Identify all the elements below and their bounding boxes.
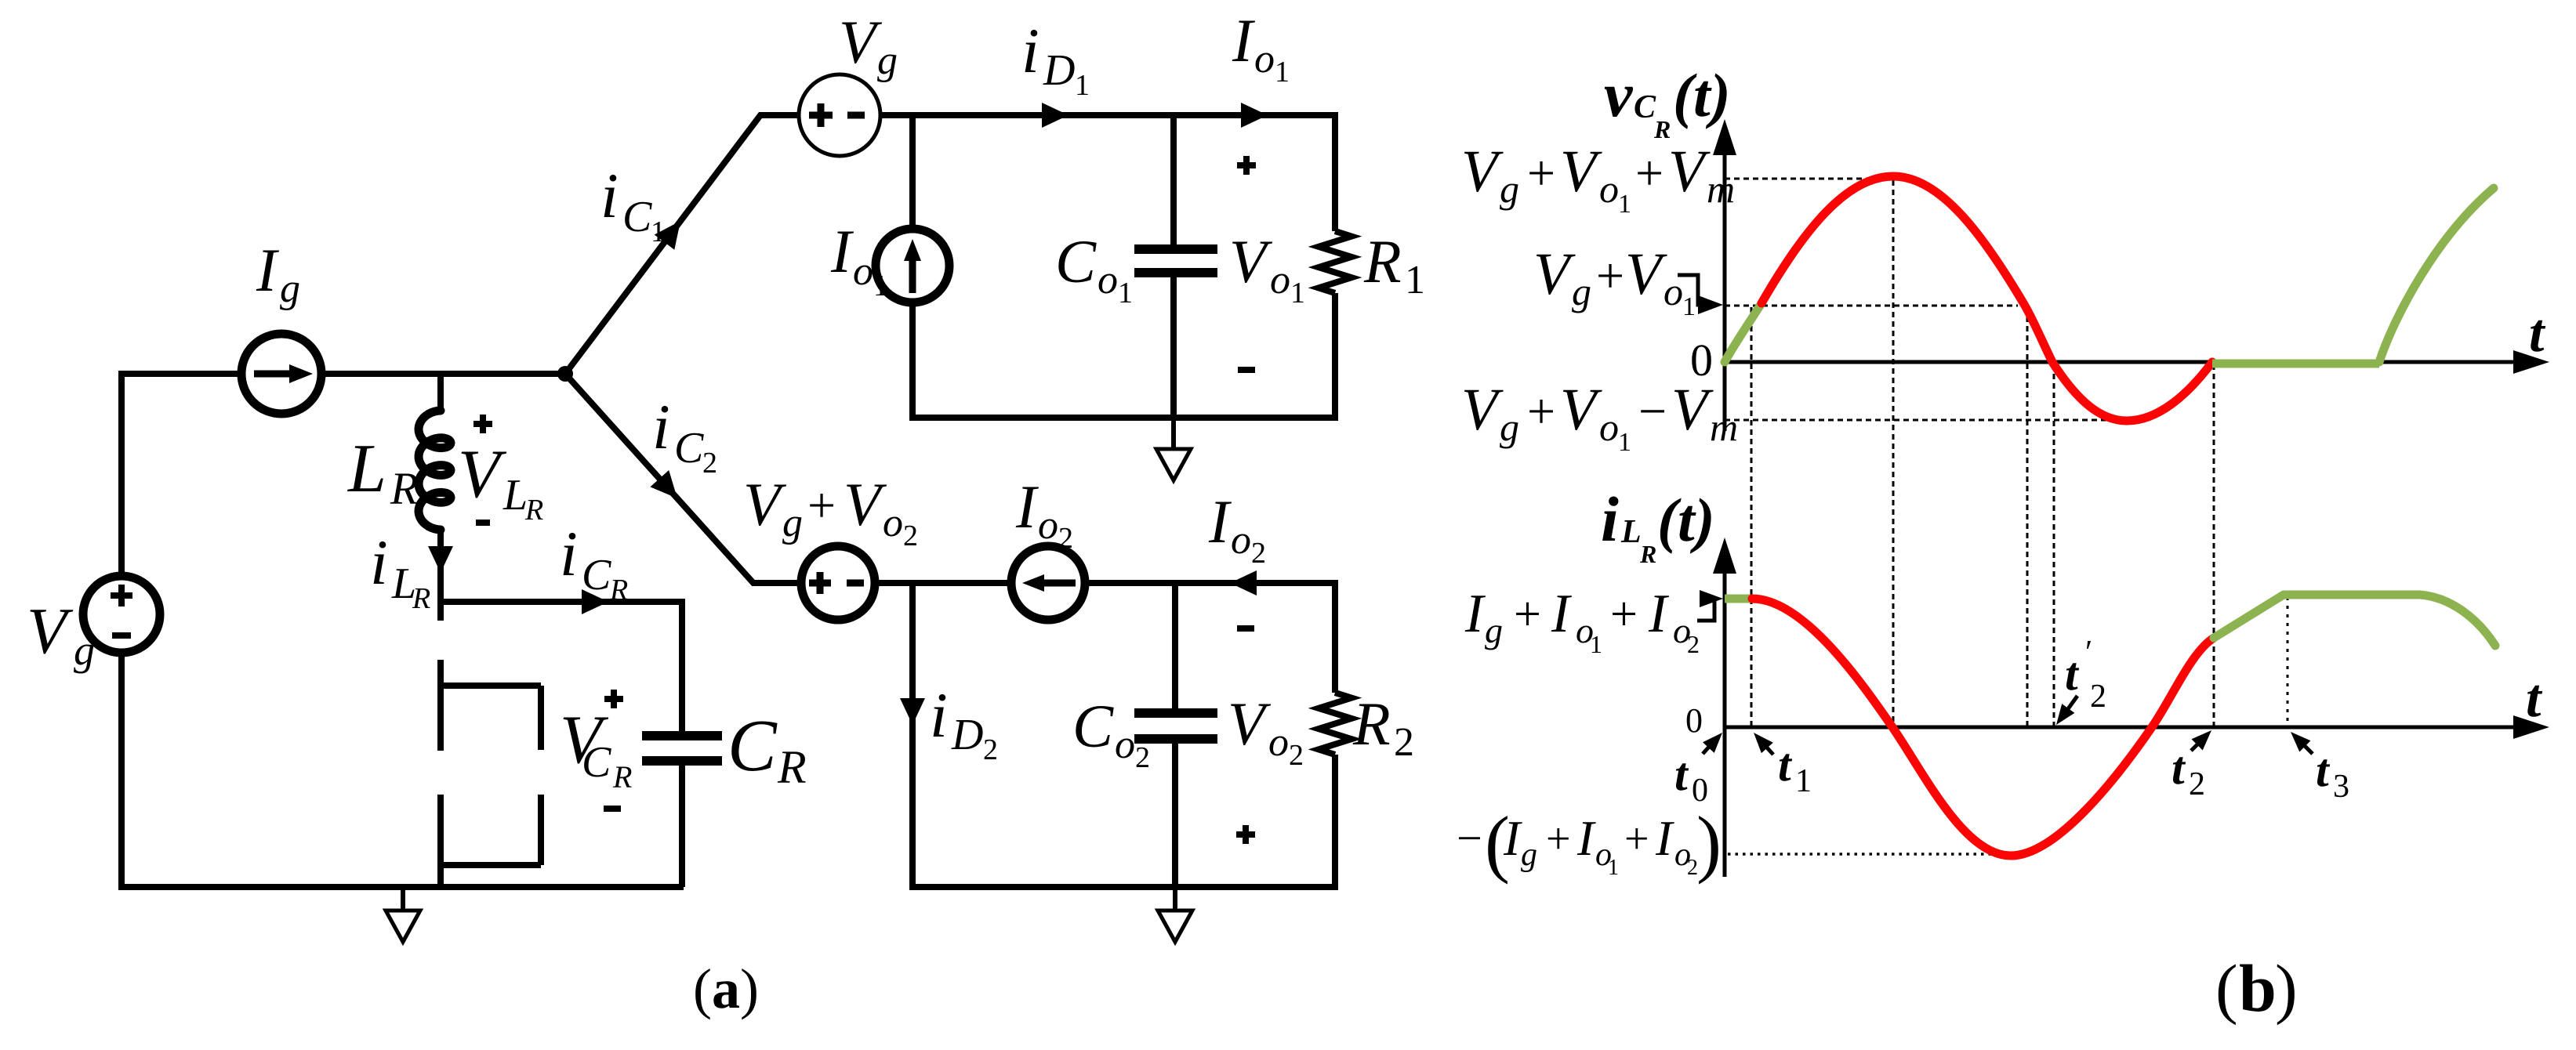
svg-text:V: V [1461, 139, 1504, 205]
svg-text:i: i [1601, 483, 1619, 555]
svg-text:+: + [1624, 815, 1649, 864]
svg-text:t: t [2529, 303, 2546, 364]
svg-text:V: V [1229, 227, 1273, 295]
svg-text:m: m [1707, 167, 1735, 211]
svg-text:g: g [782, 501, 803, 545]
curve iLR green flat [2284, 591, 2420, 599]
plus of Vo1 [1237, 156, 1256, 175]
wire Co2 bottom [1172, 739, 1178, 887]
svg-text:t: t [1674, 748, 1689, 800]
svg-text:V: V [1625, 241, 1667, 307]
axis vCR vertical [1723, 145, 1727, 431]
svg-text:+: + [1546, 815, 1571, 864]
svg-text:1: 1 [1590, 630, 1602, 658]
svg-text:1: 1 [1618, 428, 1631, 457]
svg-text:R: R [1352, 690, 1391, 758]
svg-text:2: 2 [1289, 739, 1304, 772]
current source Io1 [876, 229, 949, 302]
wire Io1 to rail [909, 302, 916, 421]
wire to Io1 source [909, 112, 916, 229]
wire left vertical upper [118, 371, 125, 577]
svg-text:o: o [1599, 167, 1619, 211]
arrow t2 [2191, 737, 2205, 751]
svg-text:R: R [1639, 540, 1656, 568]
svg-text:I: I [1015, 472, 1039, 541]
svg-text:g: g [877, 38, 898, 83]
svg-text:0: 0 [1685, 701, 1703, 740]
svg-text:g: g [1485, 610, 1503, 650]
svg-text:o: o [1231, 518, 1251, 563]
arrow t1 [1759, 739, 1773, 755]
svg-text:3: 3 [2333, 769, 2349, 805]
svg-text:2: 2 [702, 447, 717, 480]
plus of Vo2 [1236, 825, 1255, 844]
svg-text:o: o [883, 501, 903, 545]
svg-text:V: V [1228, 690, 1272, 758]
svg-text:L: L [503, 471, 528, 520]
wire after Vg+Vo2 [875, 580, 1011, 586]
svg-text:t: t [2526, 668, 2543, 729]
curve vCR green clamp flat [2212, 360, 2379, 368]
guide dashed vertical VgVo1 crossing [2026, 307, 2029, 726]
svg-text:1: 1 [651, 215, 666, 248]
svg-text:1: 1 [1405, 258, 1425, 302]
plus of VCR [604, 690, 623, 708]
svg-text:C: C [582, 738, 611, 787]
svg-text:′: ′ [2085, 635, 2092, 671]
svg-text:v: v [1604, 59, 1634, 130]
svg-text:2: 2 [1135, 741, 1150, 774]
svg-text:i: i [370, 527, 388, 598]
minus of Vo1 [1238, 367, 1255, 373]
svg-text:o: o [1038, 503, 1058, 548]
wire Co1 top [1170, 112, 1177, 249]
svg-text:1: 1 [873, 270, 888, 302]
svg-text:V: V [844, 470, 887, 538]
wire inductor top stub [437, 371, 444, 411]
arrow iCR [582, 589, 608, 614]
switch (dashed) main segments [437, 602, 444, 887]
svg-text:I: I [1503, 810, 1522, 866]
svg-text:): ) [2275, 950, 2298, 1026]
svg-text:i: i [560, 518, 578, 589]
svg-text:R: R [612, 759, 632, 795]
curve iLR red resonant [1752, 599, 2214, 856]
curve vCR green rise [2379, 188, 2494, 362]
capacitor CR [642, 736, 722, 761]
wire bottom rail (output2) [909, 884, 1338, 890]
inductor LR coil [419, 411, 451, 530]
svg-text:1: 1 [1682, 292, 1696, 321]
svg-text:(t): (t) [1673, 61, 1731, 129]
svg-text:I: I [1576, 810, 1596, 866]
current source Ig [241, 334, 321, 414]
svg-text:R: R [524, 494, 543, 527]
svg-text:0: 0 [1692, 773, 1708, 809]
svg-text:I: I [1464, 584, 1486, 644]
curve iLR green initial flat [1725, 595, 1752, 603]
axis iLR horizontal t [1725, 726, 2520, 730]
resistor R1 [1332, 112, 1338, 231]
svg-text:I: I [256, 236, 280, 304]
svg-text:): ) [740, 958, 759, 1020]
svg-text:R: R [412, 582, 430, 615]
svg-text:−: − [1457, 813, 1482, 864]
guide dotted horizontal -(Ig+Io1+Io2) [1728, 853, 2015, 856]
svg-text:C: C [727, 705, 778, 787]
svg-text:+: + [1596, 248, 1624, 303]
wire Co1 bottom [1170, 273, 1177, 418]
arrow Io2 (top right, pointing left) [1230, 570, 1257, 596]
svg-text:i: i [1021, 15, 1039, 86]
svg-text:1: 1 [1290, 277, 1305, 310]
svg-text:g: g [1521, 837, 1537, 873]
svg-text:V: V [839, 8, 883, 76]
svg-text:V: V [743, 470, 787, 538]
guide dashed horizontal Vg+Vo1-Vm [1725, 419, 2127, 422]
svg-text:I: I [830, 217, 854, 285]
svg-text:L: L [1620, 514, 1642, 550]
svg-text:C: C [1634, 89, 1656, 125]
arrow iD2 [900, 698, 925, 725]
wire iD2 vertical [909, 580, 916, 890]
resistor R2 [1332, 580, 1338, 693]
guide dashed vertical t3 [2287, 597, 2289, 726]
svg-text:o: o [1254, 37, 1275, 81]
svg-text:o: o [1270, 258, 1290, 302]
svg-text:t: t [2065, 648, 2080, 700]
svg-text:+: + [1635, 145, 1664, 201]
svg-text:1: 1 [1608, 856, 1619, 880]
capacitor Co1 [1134, 249, 1217, 273]
wire left feed to Ig source [122, 371, 241, 377]
svg-text:C: C [674, 424, 704, 472]
guide dashed horizontal Vg+Vo1+Vm [1725, 178, 1893, 180]
svg-text:(: ( [2215, 950, 2238, 1026]
svg-text:+: + [1527, 145, 1555, 201]
svg-text:1: 1 [1075, 69, 1090, 102]
wire bottom rail (output1) [909, 415, 1338, 421]
svg-text:2: 2 [1687, 630, 1700, 658]
svg-text:i: i [930, 679, 948, 751]
switch (dashed) box [441, 686, 541, 865]
arrow iC2 [650, 470, 677, 498]
svg-text:R: R [1363, 227, 1402, 295]
svg-text:+: + [1527, 383, 1555, 439]
minus of VLR [476, 520, 490, 526]
voltage source Vg (top, thin) [799, 74, 880, 156]
svg-text:o: o [1268, 720, 1289, 765]
svg-text:V: V [1461, 377, 1504, 443]
svg-text:o: o [1599, 405, 1619, 449]
svg-text:m: m [1710, 405, 1738, 449]
svg-text:C: C [622, 193, 652, 241]
svg-text:1: 1 [1618, 190, 1631, 219]
svg-text:2: 2 [903, 520, 918, 552]
wire Co2 top [1172, 580, 1178, 713]
svg-text:V: V [27, 595, 74, 668]
svg-text:2: 2 [2189, 766, 2205, 802]
svg-text:2: 2 [983, 733, 998, 766]
wire CR top [679, 599, 685, 736]
svg-text:a: a [712, 958, 740, 1020]
svg-text:g: g [74, 627, 95, 674]
wire below coil [437, 530, 444, 602]
minus of Vo2 [1237, 625, 1254, 632]
svg-text:2: 2 [1058, 522, 1073, 555]
svg-text:I: I [1551, 584, 1573, 644]
svg-text:2: 2 [2090, 679, 2106, 715]
arrow iLR [428, 546, 453, 573]
arrow t3 [2297, 738, 2313, 754]
wire diagonal to bottom branch [565, 374, 802, 583]
svg-text:I: I [1232, 6, 1256, 74]
svg-text:o: o [1098, 258, 1118, 302]
guide dashed vertical t1 [1751, 307, 1753, 726]
svg-text:2: 2 [1251, 537, 1266, 570]
svg-text:C: C [582, 551, 611, 599]
pointer elbow Ig+Io1+Io2 [1697, 600, 1714, 621]
current source Io2 [1011, 546, 1085, 620]
minus of VCR [604, 806, 621, 812]
node junction dot [557, 366, 573, 382]
curve vCR green initial [1725, 303, 1761, 362]
svg-text:1: 1 [1795, 763, 1812, 799]
ground (output2) [1173, 887, 1177, 911]
guide dashed vertical peak [1892, 180, 1895, 726]
wire bottom rail (left loop) [118, 884, 684, 890]
arrow Io1 (top) [1241, 103, 1268, 128]
svg-text:V: V [1668, 139, 1711, 205]
svg-text:g: g [1500, 167, 1519, 211]
svg-text:+: + [1610, 588, 1638, 641]
wire left vertical lower [118, 653, 125, 890]
svg-text:+: + [1514, 588, 1541, 641]
axis vCR horizontal t [1725, 360, 2520, 364]
svg-text:t: t [2316, 744, 2331, 796]
voltage source Vg+Vo2 [801, 546, 875, 620]
capacitor Co2 [1134, 713, 1217, 739]
svg-text:V: V [1560, 139, 1602, 205]
svg-text:b: b [2239, 950, 2277, 1026]
svg-text:t: t [1778, 739, 1793, 791]
svg-text:C: C [1072, 692, 1114, 760]
svg-text:): ) [1696, 801, 1722, 885]
svg-text:g: g [280, 266, 300, 311]
svg-text:I: I [1208, 487, 1232, 556]
guide dashed vertical t2prime [2053, 364, 2055, 726]
svg-text:o: o [853, 249, 873, 294]
svg-text:D: D [1043, 46, 1075, 95]
svg-text:L: L [346, 431, 386, 507]
svg-text:g: g [1500, 405, 1519, 449]
wire top rail [880, 112, 1338, 118]
svg-text:i: i [652, 391, 670, 462]
arrow t2prime [2063, 696, 2077, 715]
plus of VLR [473, 415, 492, 433]
wire diagonal to top branch [565, 115, 800, 374]
svg-text:C: C [1055, 227, 1097, 295]
svg-text:I: I [1655, 810, 1674, 866]
ground (output1) [1171, 418, 1176, 449]
arrow iD1 [1042, 103, 1068, 128]
svg-text:1: 1 [1118, 277, 1133, 310]
svg-text:+: + [807, 477, 836, 533]
svg-text:t: t [2171, 742, 2186, 794]
svg-text:R: R [609, 574, 628, 606]
svg-text:(t): (t) [1657, 486, 1715, 554]
pointer elbow Vg+Vo1 [1678, 275, 1701, 305]
arrow iC1 [655, 221, 680, 250]
axis iLR vertical [1723, 560, 1727, 877]
curve iLR green ramp [2214, 595, 2284, 638]
wire Ig to node [321, 371, 565, 377]
svg-text:V: V [1533, 241, 1576, 307]
ground (left loop) [401, 887, 405, 911]
svg-text:2: 2 [1394, 720, 1414, 765]
svg-text:D: D [951, 711, 983, 759]
arrow t0 [1703, 738, 1717, 754]
svg-text:−: − [1638, 383, 1667, 439]
wire iCR horizontal [437, 599, 685, 605]
svg-text:i: i [600, 160, 619, 231]
svg-text:V: V [1671, 377, 1714, 443]
guide dashed vertical t2 [2213, 364, 2215, 726]
voltage source Vg (left) [83, 576, 160, 653]
guide dashed horizontal Vg+Vo1 [1725, 305, 2018, 307]
svg-text:I: I [1648, 584, 1670, 644]
svg-text:V: V [1560, 377, 1602, 443]
curve iLR green droop [2420, 595, 2495, 646]
svg-text:g: g [1572, 270, 1591, 313]
wire Io2 to rail [1085, 580, 1338, 586]
svg-text:(: ( [693, 958, 712, 1020]
svg-text:R: R [777, 741, 807, 793]
svg-text:1: 1 [1275, 56, 1290, 89]
curve vCR red resonant [1761, 176, 2212, 421]
svg-text:R: R [390, 463, 418, 514]
svg-text:o: o [1115, 722, 1135, 767]
wire CR bottom [679, 761, 685, 887]
svg-text:V: V [458, 436, 507, 512]
